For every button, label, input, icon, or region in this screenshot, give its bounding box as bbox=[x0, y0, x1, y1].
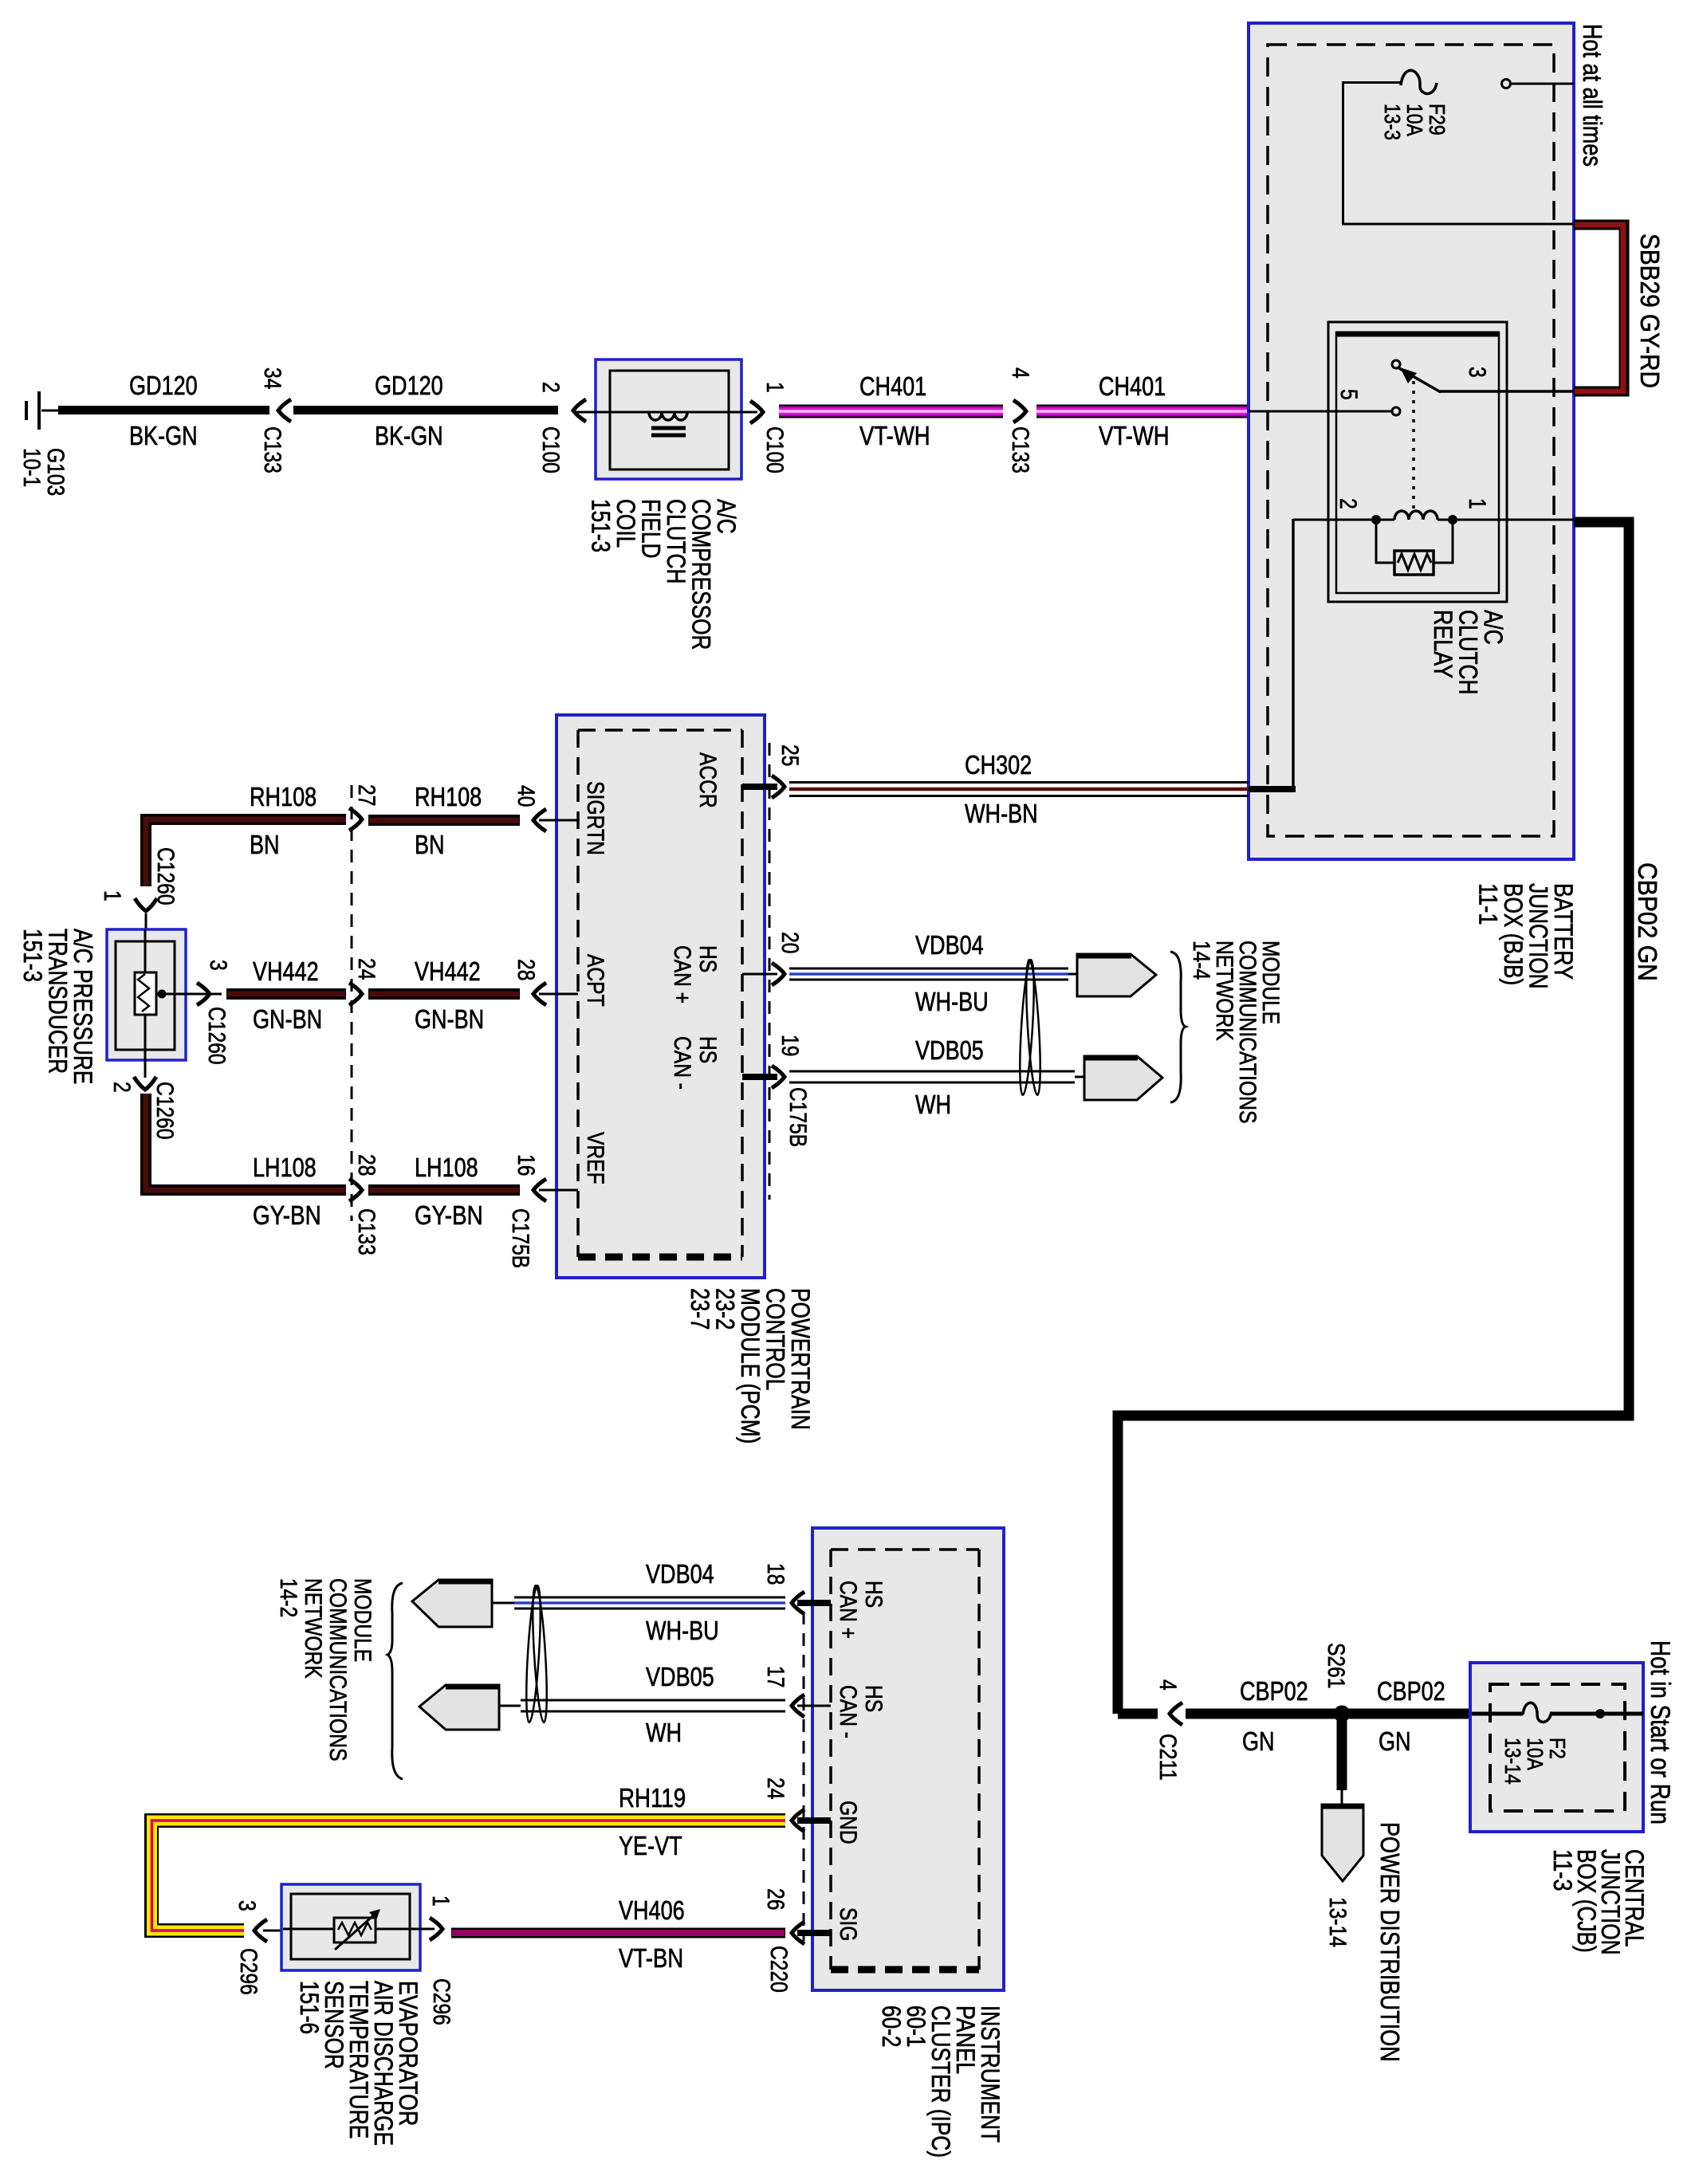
fuse F2 element bbox=[1523, 1703, 1551, 1722]
off-page pointer VDB05 (14-4) bbox=[1084, 1056, 1162, 1100]
wire VH406 VT-BN (sensor to IPC pin 26) bbox=[451, 1928, 785, 1938]
svg-text:151-3: 151-3 bbox=[587, 499, 616, 552]
svg-text:GN: GN bbox=[1379, 1726, 1411, 1756]
svg-text:VH406: VH406 bbox=[619, 1895, 685, 1925]
svg-text:C296: C296 bbox=[428, 1978, 454, 2025]
relay pin 2 junction dot bbox=[1372, 516, 1381, 524]
relay pivot circle bbox=[1392, 360, 1400, 368]
wire S261 to power distribution bbox=[1337, 1719, 1347, 1790]
svg-text:34: 34 bbox=[259, 367, 285, 389]
IPC pin 18 stub bbox=[797, 1600, 831, 1606]
svg-text:1: 1 bbox=[99, 890, 125, 901]
svg-text:VT-WH: VT-WH bbox=[1099, 421, 1170, 450]
svg-text:CAN +: CAN + bbox=[669, 945, 695, 1004]
svg-text:RELAY: RELAY bbox=[1429, 610, 1457, 678]
svg-text:GN-BN: GN-BN bbox=[415, 1004, 484, 1034]
svg-text:C175B: C175B bbox=[785, 1087, 811, 1147]
svg-text:C296: C296 bbox=[235, 1948, 262, 1995]
svg-text:CAN -: CAN - bbox=[669, 1036, 695, 1090]
svg-text:16: 16 bbox=[513, 1154, 539, 1176]
svg-text:13-14: 13-14 bbox=[1324, 1897, 1351, 1947]
svg-text:VT-BN: VT-BN bbox=[619, 1943, 683, 1973]
dashed connector line C175B (PCM right) bbox=[769, 743, 771, 1200]
svg-text:151-3: 151-3 bbox=[18, 929, 47, 982]
svg-text:HS: HS bbox=[694, 945, 721, 972]
svg-text:C133: C133 bbox=[259, 426, 285, 473]
svg-text:23-7: 23-7 bbox=[686, 1288, 714, 1330]
svg-text:GD120: GD120 bbox=[375, 371, 443, 400]
svg-text:VREF: VREF bbox=[582, 1132, 608, 1184]
battery junction box BJB bbox=[1249, 23, 1574, 859]
svg-text:VDB04: VDB04 bbox=[915, 930, 984, 960]
off-page pointer VDB04 (14-4) bbox=[1077, 954, 1156, 996]
svg-text:4: 4 bbox=[1007, 367, 1033, 379]
svg-text:C1260: C1260 bbox=[152, 847, 179, 905]
svg-text:C175B: C175B bbox=[507, 1208, 533, 1268]
coil core bars bbox=[651, 426, 686, 430]
IPC pin 17 stub bbox=[797, 1705, 831, 1707]
svg-text:24: 24 bbox=[353, 958, 380, 980]
svg-text:40: 40 bbox=[513, 785, 539, 807]
svg-text:10A: 10A bbox=[1402, 104, 1427, 136]
relay suppression resistor branch left bbox=[1376, 523, 1394, 563]
A/C compressor clutch field coil box bbox=[596, 359, 741, 479]
svg-text:BN: BN bbox=[415, 830, 445, 859]
svg-text:CBP02: CBP02 bbox=[1240, 1676, 1308, 1706]
svg-text:C211: C211 bbox=[1154, 1734, 1181, 1781]
instrument panel cluster IPC box bbox=[812, 1528, 1004, 1990]
PCM pin 40 SIGRTN stub bbox=[539, 819, 578, 822]
svg-text:2: 2 bbox=[108, 1082, 135, 1093]
svg-text:VDB05: VDB05 bbox=[646, 1662, 714, 1691]
svg-text:ACCR: ACCR bbox=[694, 752, 721, 808]
svg-text:Hot in Start or Run: Hot in Start or Run bbox=[1645, 1640, 1675, 1825]
svg-text:SIG: SIG bbox=[835, 1907, 861, 1941]
wire RH119 YE-VT (IPC pin 24 to sensor) bbox=[151, 1821, 785, 1931]
svg-text:S261: S261 bbox=[1323, 1643, 1349, 1688]
wire VH442 GN-BN segment 2 bbox=[368, 988, 520, 1000]
svg-text:2: 2 bbox=[1335, 498, 1361, 509]
svg-text:SIGRTN: SIGRTN bbox=[582, 781, 608, 855]
relay pin 3 contact line bbox=[1440, 390, 1574, 393]
A/C pressure transducer box bbox=[107, 929, 186, 1060]
svg-text:CH302: CH302 bbox=[965, 750, 1032, 780]
svg-text:CH401: CH401 bbox=[859, 371, 926, 401]
svg-text:3: 3 bbox=[205, 960, 231, 971]
svg-text:MODULE: MODULE bbox=[349, 1578, 376, 1662]
svg-text:C100: C100 bbox=[537, 426, 564, 473]
svg-text:151-6: 151-6 bbox=[295, 1981, 324, 2034]
svg-text:SBB29 GY-RD: SBB29 GY-RD bbox=[1635, 234, 1665, 388]
A/C clutch relay outer box bbox=[1328, 322, 1507, 602]
svg-text:RH119: RH119 bbox=[619, 1783, 686, 1813]
svg-text:LH108: LH108 bbox=[415, 1153, 478, 1182]
svg-text:11-3: 11-3 bbox=[1548, 1849, 1577, 1891]
dashed connector line C220 bbox=[803, 1612, 805, 1941]
svg-text:BK-GN: BK-GN bbox=[375, 421, 443, 450]
brace (module communications network 14-2) bbox=[387, 1583, 403, 1779]
svg-text:C133: C133 bbox=[1007, 426, 1033, 473]
wire VDB05 WH (IPC pin 17) bbox=[521, 1699, 785, 1702]
connector C133 pin 4 arrow bbox=[1013, 400, 1026, 422]
relay switch arm bbox=[1398, 367, 1441, 392]
svg-text:POWER DISTRIBUTION: POWER DISTRIBUTION bbox=[1375, 1822, 1405, 2062]
svg-text:NETWORK: NETWORK bbox=[300, 1578, 326, 1679]
svg-text:5: 5 bbox=[1335, 389, 1362, 400]
relay coil inductor bbox=[1380, 519, 1394, 521]
wire RH108 BN segment 2 (C133 to PCM) bbox=[368, 815, 520, 826]
PCM pin 20 HS CAN+ stub bbox=[742, 973, 777, 976]
wire VDB04 WH-BU (IPC pin 18) bbox=[514, 1597, 785, 1599]
svg-text:F29: F29 bbox=[1425, 104, 1449, 136]
svg-text:CAN +: CAN + bbox=[835, 1581, 861, 1639]
wire GD120 BK-GN segment 2 (C133 to coil) bbox=[293, 406, 558, 414]
svg-text:F2: F2 bbox=[1545, 1738, 1570, 1759]
CJB dashed border bbox=[1490, 1684, 1625, 1811]
connector C296 pin 3 arrow bbox=[254, 1919, 267, 1942]
relay plunger dotted line bbox=[1412, 381, 1415, 512]
svg-text:HS: HS bbox=[860, 1685, 887, 1712]
BJB dashed border bbox=[1268, 45, 1554, 836]
connector C100 pin 2 arrow bbox=[573, 399, 586, 422]
connector C296 pin 1 arrow bbox=[430, 1918, 442, 1940]
svg-text:19: 19 bbox=[777, 1035, 803, 1056]
wire CH401 VT-WH segment 2 (C133 to BJB) bbox=[1036, 405, 1249, 418]
twisted pair symbol (PCM side) bbox=[1017, 960, 1036, 1096]
svg-text:BN: BN bbox=[250, 830, 280, 859]
relay suppression resistor bbox=[1394, 551, 1434, 575]
svg-text:G103: G103 bbox=[42, 448, 69, 496]
connector C133 pin 28 arrow bbox=[349, 1179, 362, 1201]
svg-text:Hot at all times: Hot at all times bbox=[1578, 24, 1607, 167]
svg-text:WH-BU: WH-BU bbox=[915, 987, 989, 1016]
fuse F29 feed line from right bbox=[1512, 83, 1574, 85]
powertrain control module PCM box bbox=[557, 715, 765, 1278]
svg-text:C220: C220 bbox=[765, 1946, 792, 1993]
connector C133 pin 27 arrow bbox=[349, 808, 362, 831]
svg-text:11-1: 11-1 bbox=[1474, 883, 1503, 925]
off-page pointer VDB04 (14-2) bbox=[412, 1580, 492, 1627]
svg-text:1: 1 bbox=[427, 1895, 454, 1907]
svg-text:4: 4 bbox=[1154, 1679, 1181, 1691]
wire CBP02 GN (C211 to S261) bbox=[1186, 1709, 1338, 1719]
wire VDB05 WH (PCM pin 19) bbox=[789, 1070, 1075, 1073]
wire CH302 WH-BN (PCM pin 25 to BJB) bbox=[789, 781, 1249, 784]
transducer pin 3 line bbox=[156, 993, 222, 996]
svg-text:27: 27 bbox=[353, 784, 380, 806]
ground G103 bbox=[41, 410, 58, 412]
IPC pin 24 stub bbox=[797, 1817, 831, 1824]
svg-text:CBP02 GN: CBP02 GN bbox=[1633, 862, 1662, 981]
wire LH108 GY-BN segment 1 bbox=[146, 1094, 346, 1190]
wire VH442 GN-BN segment 1 bbox=[226, 988, 346, 1000]
svg-text:CAN -: CAN - bbox=[835, 1685, 861, 1738]
svg-text:BK-GN: BK-GN bbox=[129, 421, 198, 450]
svg-text:HS: HS bbox=[860, 1581, 887, 1608]
svg-text:YE-VT: YE-VT bbox=[619, 1831, 682, 1860]
svg-text:24: 24 bbox=[762, 1777, 789, 1799]
svg-text:COMMUNICATIONS: COMMUNICATIONS bbox=[324, 1578, 351, 1762]
svg-text:C1260: C1260 bbox=[203, 1007, 230, 1065]
transducer variable resistor bbox=[135, 972, 156, 1015]
svg-text:28: 28 bbox=[513, 959, 539, 980]
svg-text:GY-BN: GY-BN bbox=[253, 1200, 321, 1230]
svg-text:2: 2 bbox=[537, 382, 564, 393]
evaporator air discharge temperature sensor box bbox=[281, 1884, 420, 1970]
svg-text:C1260: C1260 bbox=[151, 1082, 178, 1140]
svg-text:18: 18 bbox=[762, 1563, 789, 1585]
connector C1260 pin 1 arrow bbox=[135, 898, 157, 911]
splice S261 dot bbox=[1334, 1706, 1350, 1722]
svg-text:1: 1 bbox=[761, 382, 788, 393]
svg-text:ACPT: ACPT bbox=[582, 954, 608, 1007]
fuse F29 left branch bbox=[1342, 81, 1402, 84]
wire CBP02 GN (S261 to CJB) bbox=[1347, 1709, 1472, 1719]
svg-text:GN-BN: GN-BN bbox=[253, 1004, 322, 1034]
svg-text:GND: GND bbox=[835, 1801, 861, 1844]
twisted pair symbol (IPC side) bbox=[524, 1585, 543, 1723]
sensor internal wire bbox=[283, 1928, 435, 1931]
svg-text:14-2: 14-2 bbox=[275, 1578, 301, 1617]
fuse F2 junction dot bbox=[1596, 1710, 1605, 1719]
brace (module communications network 14-4) bbox=[1170, 952, 1186, 1102]
svg-text:VDB05: VDB05 bbox=[915, 1035, 984, 1065]
PCM pin 19 HS CAN- stub bbox=[742, 1074, 777, 1080]
wire RH108 BN segment 1 (transducer to C133) bbox=[146, 819, 346, 886]
svg-text:CBP02: CBP02 bbox=[1377, 1676, 1445, 1706]
svg-text:3: 3 bbox=[1464, 367, 1490, 378]
IPC dashed border bbox=[831, 1548, 979, 1551]
svg-text:GY-BN: GY-BN bbox=[415, 1200, 483, 1230]
relay pin 1 line bbox=[1453, 519, 1574, 521]
connector C100 pin 1 arrow bbox=[750, 401, 763, 423]
svg-text:14-4: 14-4 bbox=[1188, 941, 1214, 980]
wire CBP02 GN (BJB to corner runs) bbox=[1118, 522, 1629, 1714]
svg-text:VH442: VH442 bbox=[253, 956, 319, 986]
wire LH108 GY-BN segment 2 bbox=[368, 1184, 520, 1196]
transducer junction dot bbox=[158, 990, 166, 998]
svg-text:C100: C100 bbox=[761, 426, 788, 473]
central junction box CJB bbox=[1470, 1663, 1643, 1832]
connector C211 pin 4 arrow bbox=[1170, 1703, 1182, 1725]
relay pin 1 junction dot bbox=[1449, 516, 1457, 524]
wire CH302 inside BJB (to relay pin 2) bbox=[1249, 786, 1296, 792]
fuse F2 line left bbox=[1472, 1712, 1523, 1716]
wire GD120 BK-GN segment 1 (ground to C133) bbox=[58, 406, 269, 414]
off-page pointer VDB05 (14-2) bbox=[419, 1685, 499, 1730]
sensor thermistor arrow bbox=[335, 1912, 377, 1950]
svg-text:LH108: LH108 bbox=[253, 1153, 317, 1182]
fuse F29 output line (to SBB29) bbox=[1342, 223, 1574, 226]
svg-text:17: 17 bbox=[762, 1666, 789, 1687]
svg-text:C133: C133 bbox=[353, 1208, 380, 1255]
svg-text:25: 25 bbox=[777, 744, 803, 766]
transducer internal wire bbox=[144, 929, 147, 1060]
svg-text:20: 20 bbox=[777, 932, 803, 953]
PCM pin 25 ACCR stub bbox=[742, 784, 777, 790]
svg-text:10-1: 10-1 bbox=[18, 448, 45, 487]
svg-text:13-3: 13-3 bbox=[1380, 104, 1405, 140]
IPC pin 26 stub bbox=[797, 1930, 831, 1936]
svg-text:HS: HS bbox=[694, 1036, 721, 1063]
svg-text:10A: 10A bbox=[1523, 1738, 1548, 1770]
svg-text:60-2: 60-2 bbox=[877, 2005, 906, 2048]
connector C1260 pin 3 arrow bbox=[197, 983, 210, 1005]
svg-text:VDB04: VDB04 bbox=[646, 1559, 714, 1589]
svg-text:RH108: RH108 bbox=[415, 782, 482, 811]
relay pin 2 line bbox=[1293, 519, 1376, 521]
svg-text:26: 26 bbox=[762, 1888, 789, 1910]
fuse F29 element bbox=[1401, 70, 1437, 93]
wire through coil (pin2 to pin1) bbox=[576, 411, 757, 414]
relay suppression resistor branch right bbox=[1434, 523, 1453, 563]
svg-text:13-14: 13-14 bbox=[1500, 1738, 1525, 1785]
wire SBB29 GY-RD (red loop) bbox=[1574, 225, 1624, 391]
svg-text:VT-WH: VT-WH bbox=[859, 421, 930, 450]
PCM pin 16 VREF stub bbox=[539, 1189, 578, 1192]
PCM pin 28 ACPT stub bbox=[539, 993, 578, 996]
svg-text:WH: WH bbox=[915, 1090, 951, 1119]
inductor coil symbol bbox=[649, 412, 687, 420]
relay switch arm arrowhead bbox=[1400, 367, 1417, 383]
svg-text:CH401: CH401 bbox=[1099, 371, 1166, 401]
svg-text:28: 28 bbox=[353, 1154, 380, 1176]
svg-text:WH: WH bbox=[646, 1718, 682, 1747]
dashed connector line C133 (mid) bbox=[351, 785, 353, 1221]
PCM dashed border bbox=[578, 729, 742, 732]
connector C133 pin 34 arrow bbox=[278, 399, 291, 422]
fuse F2 line right bbox=[1550, 1712, 1643, 1716]
off-page pointer POWER DISTRIBUTION bbox=[1322, 1805, 1363, 1881]
A/C clutch relay inner box bbox=[1336, 332, 1499, 593]
svg-text:3: 3 bbox=[234, 1900, 260, 1911]
fuse F29 terminal circle bbox=[1502, 80, 1511, 88]
sensor thermistor bbox=[334, 1918, 376, 1942]
svg-text:WH-BN: WH-BN bbox=[965, 799, 1038, 828]
svg-text:WH-BU: WH-BU bbox=[646, 1616, 719, 1645]
connector C1260 pin 2 arrow bbox=[144, 1060, 147, 1078]
svg-text:VH442: VH442 bbox=[415, 956, 481, 986]
wire CH401 VT-WH segment 1 (coil to C133) bbox=[779, 405, 1003, 418]
wire VDB04 WH-BU (PCM pin 20) bbox=[789, 968, 1068, 970]
relay pin 5 circle bbox=[1392, 407, 1400, 415]
svg-text:GN: GN bbox=[1242, 1726, 1275, 1756]
connector C133 pin 24 arrow bbox=[349, 983, 362, 1005]
relay pin 5 line bbox=[1249, 410, 1392, 413]
svg-text:GD120: GD120 bbox=[129, 371, 198, 400]
svg-text:RH108: RH108 bbox=[250, 782, 317, 811]
svg-text:1: 1 bbox=[1464, 498, 1490, 509]
